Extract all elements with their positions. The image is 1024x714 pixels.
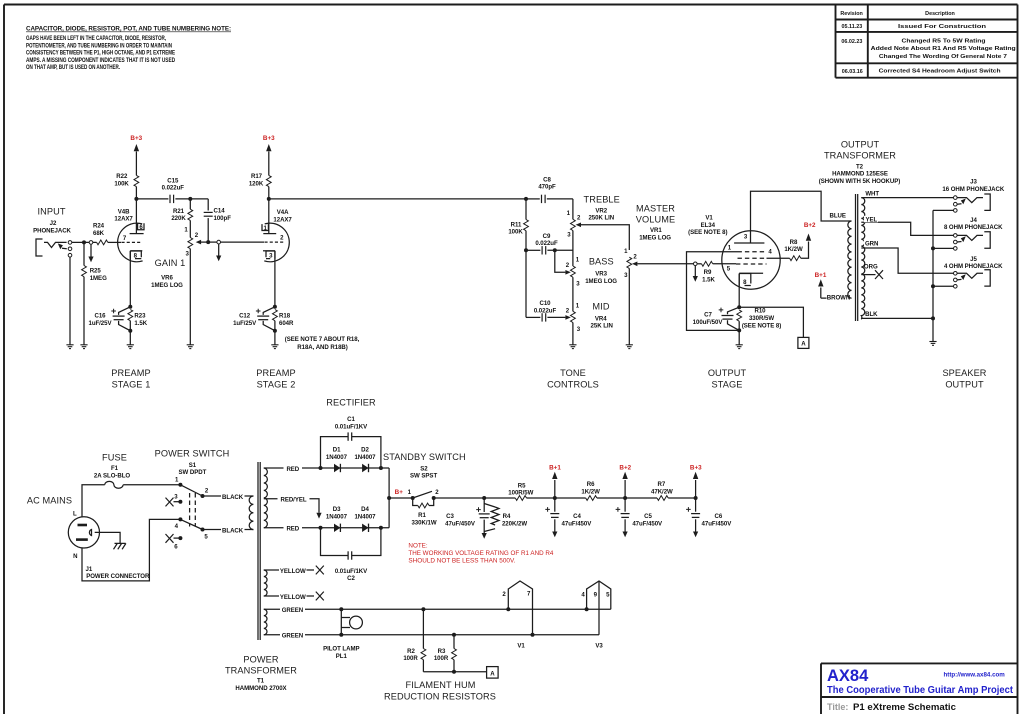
S1 blade lower xyxy=(180,519,202,529)
svg-text:Changed The Wording Of General: Changed The Wording Of General Note 7 xyxy=(879,54,1007,60)
cathode bar xyxy=(263,250,275,252)
svg-text:47uF/450V: 47uF/450V xyxy=(632,520,663,527)
node B+ xyxy=(387,496,391,500)
svg-text:B+3: B+3 xyxy=(690,464,702,471)
resistor R1 bypass xyxy=(413,498,418,506)
node V4B plate xyxy=(134,197,138,201)
T2 secondary coil xyxy=(861,198,864,320)
wire g3 to cathode bottom xyxy=(687,252,739,331)
svg-text:TONE: TONE xyxy=(560,368,586,378)
jack J2 ring terminal xyxy=(68,247,72,251)
svg-text:8 OHM PHONEJACK: 8 OHM PHONEJACK xyxy=(944,224,1003,231)
svg-text:47K/2W: 47K/2W xyxy=(651,489,673,496)
svg-text:4 OHM PHONEJACK: 4 OHM PHONEJACK xyxy=(944,263,1003,270)
wire S1-2 to T1 (BLACK) xyxy=(203,495,254,497)
svg-text:S2: S2 xyxy=(420,465,428,472)
resistor R25 xyxy=(83,242,85,265)
S1 pin 1 xyxy=(178,483,182,487)
svg-text:J2: J2 xyxy=(50,220,57,227)
pot VR4 MID xyxy=(571,311,576,322)
svg-text:V1: V1 xyxy=(517,643,525,650)
svg-text:GREEN: GREEN xyxy=(282,607,303,614)
svg-text:330K/1W: 330K/1W xyxy=(411,519,436,526)
T2 primary coil xyxy=(848,221,852,298)
wire RED/YEL center tap xyxy=(264,499,319,513)
wire R8 to B+2 xyxy=(801,242,809,259)
wire N to S1 pin4 xyxy=(82,519,180,581)
capacitor C4 xyxy=(554,498,556,512)
resistor R6 xyxy=(586,496,597,501)
diode D3 xyxy=(334,524,340,532)
svg-text:B+2: B+2 xyxy=(804,222,816,229)
svg-text:1N4007: 1N4007 xyxy=(354,514,376,521)
svg-text:100K: 100K xyxy=(114,180,129,187)
svg-text:V4A: V4A xyxy=(277,209,289,216)
svg-text:1.5K: 1.5K xyxy=(134,320,147,327)
svg-text:J1: J1 xyxy=(86,566,93,573)
svg-text:R8: R8 xyxy=(790,239,798,246)
svg-text:POWER: POWER xyxy=(243,655,278,665)
power arrow B+2 xyxy=(806,234,811,241)
svg-text:SPEAKER: SPEAKER xyxy=(942,368,986,378)
wire RED tap top xyxy=(264,467,321,469)
wire BLK tap xyxy=(861,317,933,319)
resistor R4 xyxy=(484,504,495,532)
ground VR1 xyxy=(626,345,633,349)
power connector J1 xyxy=(68,517,99,548)
node tone input xyxy=(524,197,528,201)
wire S2 to B+ rail xyxy=(434,497,516,499)
svg-text:C15: C15 xyxy=(167,177,179,184)
svg-text:F1: F1 xyxy=(111,465,119,472)
wiper VR1 arrow xyxy=(632,262,637,267)
svg-text:1N4007: 1N4007 xyxy=(354,454,376,461)
jack J2 switch arrow xyxy=(62,247,67,250)
node B+1 xyxy=(553,496,557,500)
svg-text:Corrected S4 Headroom Adjust S: Corrected S4 Headroom Adjust Switch xyxy=(879,69,1001,75)
resistor R22 xyxy=(134,175,139,186)
svg-text:(SEE NOTE 7 ABOUT R18,: (SEE NOTE 7 ABOUT R18, xyxy=(285,336,360,343)
svg-text:TREBLE: TREBLE xyxy=(584,195,620,205)
wire L up to fuse xyxy=(82,485,105,517)
capacitor C9 xyxy=(526,249,540,251)
resistor R24 xyxy=(97,240,108,245)
svg-text:100R: 100R xyxy=(434,655,449,662)
svg-text:ON THAT AMP, BUT IS USED ON AN: ON THAT AMP, BUT IS USED ON ANOTHER. xyxy=(26,64,120,71)
S1 pin 6 X xyxy=(178,536,182,540)
svg-text:Revision: Revision xyxy=(840,11,862,17)
svg-text:V3: V3 xyxy=(595,643,603,650)
svg-text:1uF/25V: 1uF/25V xyxy=(233,320,257,327)
svg-text:WHT: WHT xyxy=(865,190,879,197)
jack J2 tip terminal xyxy=(68,241,72,245)
wire screen to R8 xyxy=(767,257,790,259)
wire filament resistor bottoms xyxy=(423,671,486,673)
cathode bar xyxy=(739,272,763,274)
svg-text:R18A, AND R18B): R18A, AND R18B) xyxy=(297,344,348,351)
plate bar xyxy=(734,242,764,244)
heater V3 xyxy=(581,581,610,650)
svg-text:AMPS. A MISSING COMPONENT IND: AMPS. A MISSING COMPONENT INDICATES THAT… xyxy=(26,57,175,64)
svg-text:C9: C9 xyxy=(543,233,551,240)
svg-text:AC MAINS: AC MAINS xyxy=(27,496,72,506)
S1 pin 3 X xyxy=(178,500,182,504)
svg-text:MASTER: MASTER xyxy=(636,204,675,214)
svg-text:16 OHM PHONEJACK: 16 OHM PHONEJACK xyxy=(942,186,1004,193)
svg-text:0.022uF: 0.022uF xyxy=(534,307,557,314)
wire C9 to bass wiper xyxy=(555,250,566,272)
svg-text:PILOT LAMP: PILOT LAMP xyxy=(323,646,359,653)
node rect bottom left xyxy=(319,526,323,530)
resistor R21 xyxy=(189,199,191,209)
wiper VR6 arrow xyxy=(196,240,201,245)
sheet border top xyxy=(4,4,1018,6)
pin 6 box xyxy=(138,223,144,230)
jack J5 xyxy=(954,270,991,288)
svg-text:S1: S1 xyxy=(189,462,197,469)
jack J2 tip spring xyxy=(44,242,67,247)
label BROWN xyxy=(827,293,851,302)
svg-text:P1 eXtreme Schematic: P1 eXtreme Schematic xyxy=(853,702,957,713)
svg-text:B+2: B+2 xyxy=(619,464,631,471)
wire cathode down xyxy=(274,251,276,307)
wire jack sleeve to ground xyxy=(69,257,71,345)
svg-text:120K: 120K xyxy=(249,180,264,187)
ground jack sleeve xyxy=(66,345,73,349)
svg-text:POWER SWITCH: POWER SWITCH xyxy=(155,449,230,459)
S1 pin 2 xyxy=(201,494,205,498)
svg-text:1.5K: 1.5K xyxy=(702,276,715,283)
wire R7 to B+3 xyxy=(668,497,695,499)
chassis arrow C3 xyxy=(482,533,487,539)
wire ORG tap xyxy=(861,274,875,276)
node J5 sleeve xyxy=(931,284,935,288)
wire GREEN tap 2 xyxy=(264,634,599,636)
svg-text:HAMMOND 125ESE: HAMMOND 125ESE xyxy=(832,171,888,178)
svg-text:CONSISTENCY BETWEEN THE P1, HI: CONSISTENCY BETWEEN THE P1, HIGH OCTANE,… xyxy=(26,50,175,57)
S1 pin 4 xyxy=(178,517,182,521)
svg-text:YELLOW: YELLOW xyxy=(280,594,306,601)
svg-text:C4: C4 xyxy=(573,513,581,520)
wiper BASS arrow xyxy=(565,270,570,275)
resistor R11 xyxy=(525,199,527,220)
svg-text:05.11.23: 05.11.23 xyxy=(842,24,863,30)
chassis arrow C5 xyxy=(623,532,628,538)
node A box xyxy=(798,337,809,348)
svg-text:RED/YEL: RED/YEL xyxy=(280,497,306,504)
wire treble wiper to MV xyxy=(581,225,629,250)
svg-text:RED: RED xyxy=(286,466,299,473)
svg-text:BLUE: BLUE xyxy=(830,212,846,219)
svg-text:YEL: YEL xyxy=(865,217,877,224)
S1 pin 5 xyxy=(201,528,205,532)
plate lead up xyxy=(135,199,137,234)
svg-text:SW DPDT: SW DPDT xyxy=(179,469,207,476)
svg-text:Description: Description xyxy=(925,11,955,17)
power arrow B+3 feed xyxy=(695,480,697,498)
pin 8 box xyxy=(130,251,141,259)
wire RED tap bottom xyxy=(264,527,321,529)
node cathode bottom xyxy=(273,329,277,333)
resistor R17 xyxy=(266,175,271,186)
ground speaker bus xyxy=(929,342,936,346)
svg-text:100K: 100K xyxy=(508,229,523,236)
svg-text:06.02.23: 06.02.23 xyxy=(841,39,862,45)
svg-text:R22: R22 xyxy=(116,173,128,180)
wire plate node to tone controls xyxy=(269,198,526,200)
fuse F1 xyxy=(105,481,123,488)
svg-text:250K LIN: 250K LIN xyxy=(588,215,614,222)
node cathode top xyxy=(273,305,277,309)
power arrow B+3 xyxy=(266,144,271,151)
svg-text:C16: C16 xyxy=(94,312,106,319)
sheet border left xyxy=(3,5,5,714)
svg-text:GAIN 1: GAIN 1 xyxy=(155,258,186,268)
wire fuse to S1 pin1 xyxy=(123,484,180,486)
svg-text:RECTIFIER: RECTIFIER xyxy=(326,398,376,408)
svg-text:1K/2W: 1K/2W xyxy=(784,246,803,253)
svg-text:PREAMP: PREAMP xyxy=(256,368,295,378)
svg-text:330R/5W: 330R/5W xyxy=(749,315,774,322)
T1 primary coil xyxy=(249,496,253,530)
wire bottom rail xyxy=(321,527,390,529)
svg-text:R1: R1 xyxy=(418,512,426,519)
svg-text:1MEG LOG: 1MEG LOG xyxy=(585,278,617,285)
T2 core xyxy=(855,194,857,321)
screen dashes g2 row xyxy=(738,257,767,259)
svg-text:(SHOWN WITH 5K HOOKUP): (SHOWN WITH 5K HOOKUP) xyxy=(819,178,901,185)
resistor R8 xyxy=(790,256,801,261)
svg-text:R2: R2 xyxy=(407,648,415,655)
capacitor C16 xyxy=(88,307,130,331)
resistor R9 xyxy=(697,263,701,265)
node cathode junction xyxy=(737,305,741,309)
svg-text:BLACK: BLACK xyxy=(222,527,244,534)
svg-text:0.022uF: 0.022uF xyxy=(535,240,558,247)
svg-text:AX84: AX84 xyxy=(827,667,869,685)
svg-text:OUTPUT: OUTPUT xyxy=(945,380,984,390)
svg-text:C1: C1 xyxy=(347,416,355,423)
chassis arrow C4 xyxy=(552,532,557,538)
svg-text:B+: B+ xyxy=(395,489,404,496)
svg-text:12AX7: 12AX7 xyxy=(114,216,133,223)
svg-text:HAMMOND 2700X: HAMMOND 2700X xyxy=(235,685,287,692)
svg-text:1MEG: 1MEG xyxy=(90,275,107,282)
svg-text:0.01uF/1KV: 0.01uF/1KV xyxy=(335,568,368,575)
svg-text:Title:: Title: xyxy=(827,702,848,712)
S2 pin 1 xyxy=(411,496,415,500)
svg-text:J3: J3 xyxy=(970,179,977,186)
wire earth pin xyxy=(95,532,120,543)
wire plate row to C15 xyxy=(136,198,168,200)
T1 yellow winding xyxy=(264,570,267,596)
capacitor C14 xyxy=(207,199,209,211)
svg-text:SW SPST: SW SPST xyxy=(410,473,437,480)
svg-text:OUTPUT: OUTPUT xyxy=(708,368,747,378)
svg-text:VR3: VR3 xyxy=(595,271,607,278)
no-connect X ORG xyxy=(875,270,883,279)
svg-text:A: A xyxy=(490,670,495,677)
resistor R7 xyxy=(657,496,668,501)
svg-text:1K/2W: 1K/2W xyxy=(581,489,600,496)
chassis arrow C6 xyxy=(693,532,698,538)
svg-text:NOTE:: NOTE: xyxy=(408,542,427,549)
terminal chassis marker grid V4A xyxy=(217,240,221,244)
wire R6 to B+2 xyxy=(597,497,657,499)
svg-text:BLK: BLK xyxy=(865,311,878,318)
svg-text:L: L xyxy=(73,511,77,518)
svg-text:POWER CONNECTOR: POWER CONNECTOR xyxy=(86,573,150,580)
revision table frame xyxy=(835,5,837,78)
resistor R3 xyxy=(452,633,456,637)
svg-text:C5: C5 xyxy=(644,513,652,520)
S1 coupling dashes xyxy=(189,493,191,527)
capacitor C10 xyxy=(526,316,540,318)
wire B+1 to primary bottom xyxy=(821,297,852,299)
svg-text:220K/2W: 220K/2W xyxy=(502,520,527,527)
svg-text:R6: R6 xyxy=(587,481,595,488)
wire R5 to B+1 xyxy=(527,497,586,499)
node V4A plate xyxy=(267,197,271,201)
svg-text:0.022uF: 0.022uF xyxy=(162,185,185,192)
wire WHT tap xyxy=(861,197,953,199)
svg-text:R5: R5 xyxy=(518,483,526,490)
svg-text:47uF/450V: 47uF/450V xyxy=(445,520,476,527)
node C14 bottom xyxy=(206,240,210,244)
svg-text:PHONEJACK: PHONEJACK xyxy=(33,228,71,235)
svg-text:VR4: VR4 xyxy=(595,315,607,322)
svg-text:220K: 220K xyxy=(171,215,186,222)
svg-text:ORG: ORG xyxy=(864,264,878,271)
wire GRN tap xyxy=(861,248,953,273)
svg-text:VOLUME: VOLUME xyxy=(636,215,675,225)
power arrow B+1 feed xyxy=(554,480,556,498)
jack J2 sleeve terminal xyxy=(68,253,72,257)
diode D4 xyxy=(362,524,368,532)
capacitor C3 xyxy=(483,498,485,512)
svg-text:VR2: VR2 xyxy=(595,207,607,214)
diode D2 xyxy=(362,464,368,472)
tube V4A triode xyxy=(262,199,292,262)
node C9 left xyxy=(524,248,528,252)
diode D1 xyxy=(334,464,340,472)
svg-text:R21: R21 xyxy=(173,208,185,215)
tube V1 pentode xyxy=(722,191,852,289)
svg-text:T1: T1 xyxy=(257,678,265,685)
S2 pin 2 xyxy=(432,496,436,500)
plate lead xyxy=(751,191,852,243)
resistor R2 xyxy=(421,607,425,611)
svg-text:FUSE: FUSE xyxy=(102,453,127,463)
screen dashes g3 row xyxy=(738,251,767,253)
node C9 junction xyxy=(553,248,557,252)
svg-text:2A SLO-BLO: 2A SLO-BLO xyxy=(94,472,130,479)
svg-text:TRANSFORMER: TRANSFORMER xyxy=(225,666,297,676)
pot VR1 xyxy=(627,257,632,268)
svg-text:BLACK: BLACK xyxy=(222,494,244,501)
svg-text:T2: T2 xyxy=(856,164,864,171)
pot VR2 TREBLE xyxy=(572,199,574,219)
svg-text:C6: C6 xyxy=(715,513,723,520)
svg-text:R18: R18 xyxy=(279,312,291,319)
wire MV wiper to R9 xyxy=(637,263,693,265)
terminal chassis marker R9 xyxy=(694,262,698,266)
capacitor C6 xyxy=(695,498,697,512)
tube V4B triode xyxy=(114,199,144,262)
svg-text:100R: 100R xyxy=(403,655,418,662)
jack J3 xyxy=(954,194,991,212)
capacitor C7 xyxy=(693,307,740,330)
svg-text:REDUCTION RESISTORS: REDUCTION RESISTORS xyxy=(384,692,496,702)
svg-text:VR6: VR6 xyxy=(161,275,173,282)
earth symbol xyxy=(114,543,126,549)
wiper VR2 arrow xyxy=(576,223,581,228)
capacitor C15 xyxy=(170,195,174,203)
power arrow B+1 xyxy=(818,279,823,286)
wire S1-5 to T1 (BLACK) xyxy=(203,529,254,531)
node B+3 xyxy=(694,496,698,500)
wire GREEN tap 1 xyxy=(264,608,611,610)
svg-text:B+1: B+1 xyxy=(815,272,827,279)
svg-text:INPUT: INPUT xyxy=(37,207,65,217)
svg-text:1uF/25V: 1uF/25V xyxy=(88,320,112,327)
svg-text:http://www.ax84.com: http://www.ax84.com xyxy=(944,672,1006,679)
wire cathode to A node xyxy=(739,307,803,337)
svg-text:604R: 604R xyxy=(279,320,294,327)
svg-text:Issued For Construction: Issued For Construction xyxy=(898,24,986,30)
svg-text:CAPACITOR, DIODE, RESISTOR, PO: CAPACITOR, DIODE, RESISTOR, POT, AND TUB… xyxy=(26,26,231,33)
resistor R5 xyxy=(515,496,526,501)
wire J4 sleeve to bus xyxy=(933,247,954,249)
ground cathode V1 xyxy=(736,345,743,349)
svg-text:MID: MID xyxy=(592,302,609,312)
svg-text:(SEE NOTE 8): (SEE NOTE 8) xyxy=(688,229,727,236)
svg-text:J4: J4 xyxy=(970,217,977,224)
svg-text:GAPS HAVE BEEN LEFT IN THE CAP: GAPS HAVE BEEN LEFT IN THE CAPACITOR, DI… xyxy=(26,35,166,42)
node R21 top xyxy=(188,197,192,201)
svg-text:SHOULD NOT BE LESS THAN 500V.: SHOULD NOT BE LESS THAN 500V. xyxy=(408,557,515,564)
sheet border right xyxy=(1017,5,1019,714)
svg-text:BASS: BASS xyxy=(589,257,614,267)
T1 HT winding xyxy=(264,468,268,528)
heater V1 xyxy=(502,581,534,650)
T1 core xyxy=(257,462,259,640)
capacitor C8 xyxy=(526,198,540,200)
svg-text:68K: 68K xyxy=(93,230,105,237)
svg-text:C7: C7 xyxy=(704,312,712,319)
node input junction xyxy=(82,240,86,244)
capacitor C2 xyxy=(321,528,381,556)
svg-text:GRN: GRN xyxy=(865,241,878,248)
svg-text:PL1: PL1 xyxy=(336,653,348,660)
pin E xyxy=(89,530,91,536)
wire speaker ground bus xyxy=(932,210,934,341)
label YEL xyxy=(864,216,878,224)
wire top rail xyxy=(321,467,390,469)
svg-text:R7: R7 xyxy=(658,481,666,488)
wire to V4A grid xyxy=(221,241,265,243)
capacitor C1 xyxy=(321,437,381,468)
svg-text:25K LIN: 25K LIN xyxy=(591,323,613,330)
node cathode top xyxy=(128,305,132,309)
label BLUE xyxy=(828,211,847,220)
svg-text:VR1: VR1 xyxy=(650,227,662,234)
S1 blade upper xyxy=(180,485,202,496)
svg-text:47uF/450V: 47uF/450V xyxy=(702,520,733,527)
wire YELLOW tap 1 xyxy=(264,569,314,571)
wire YEL tap xyxy=(861,222,953,235)
wire J5 sleeve to bus xyxy=(933,285,954,287)
